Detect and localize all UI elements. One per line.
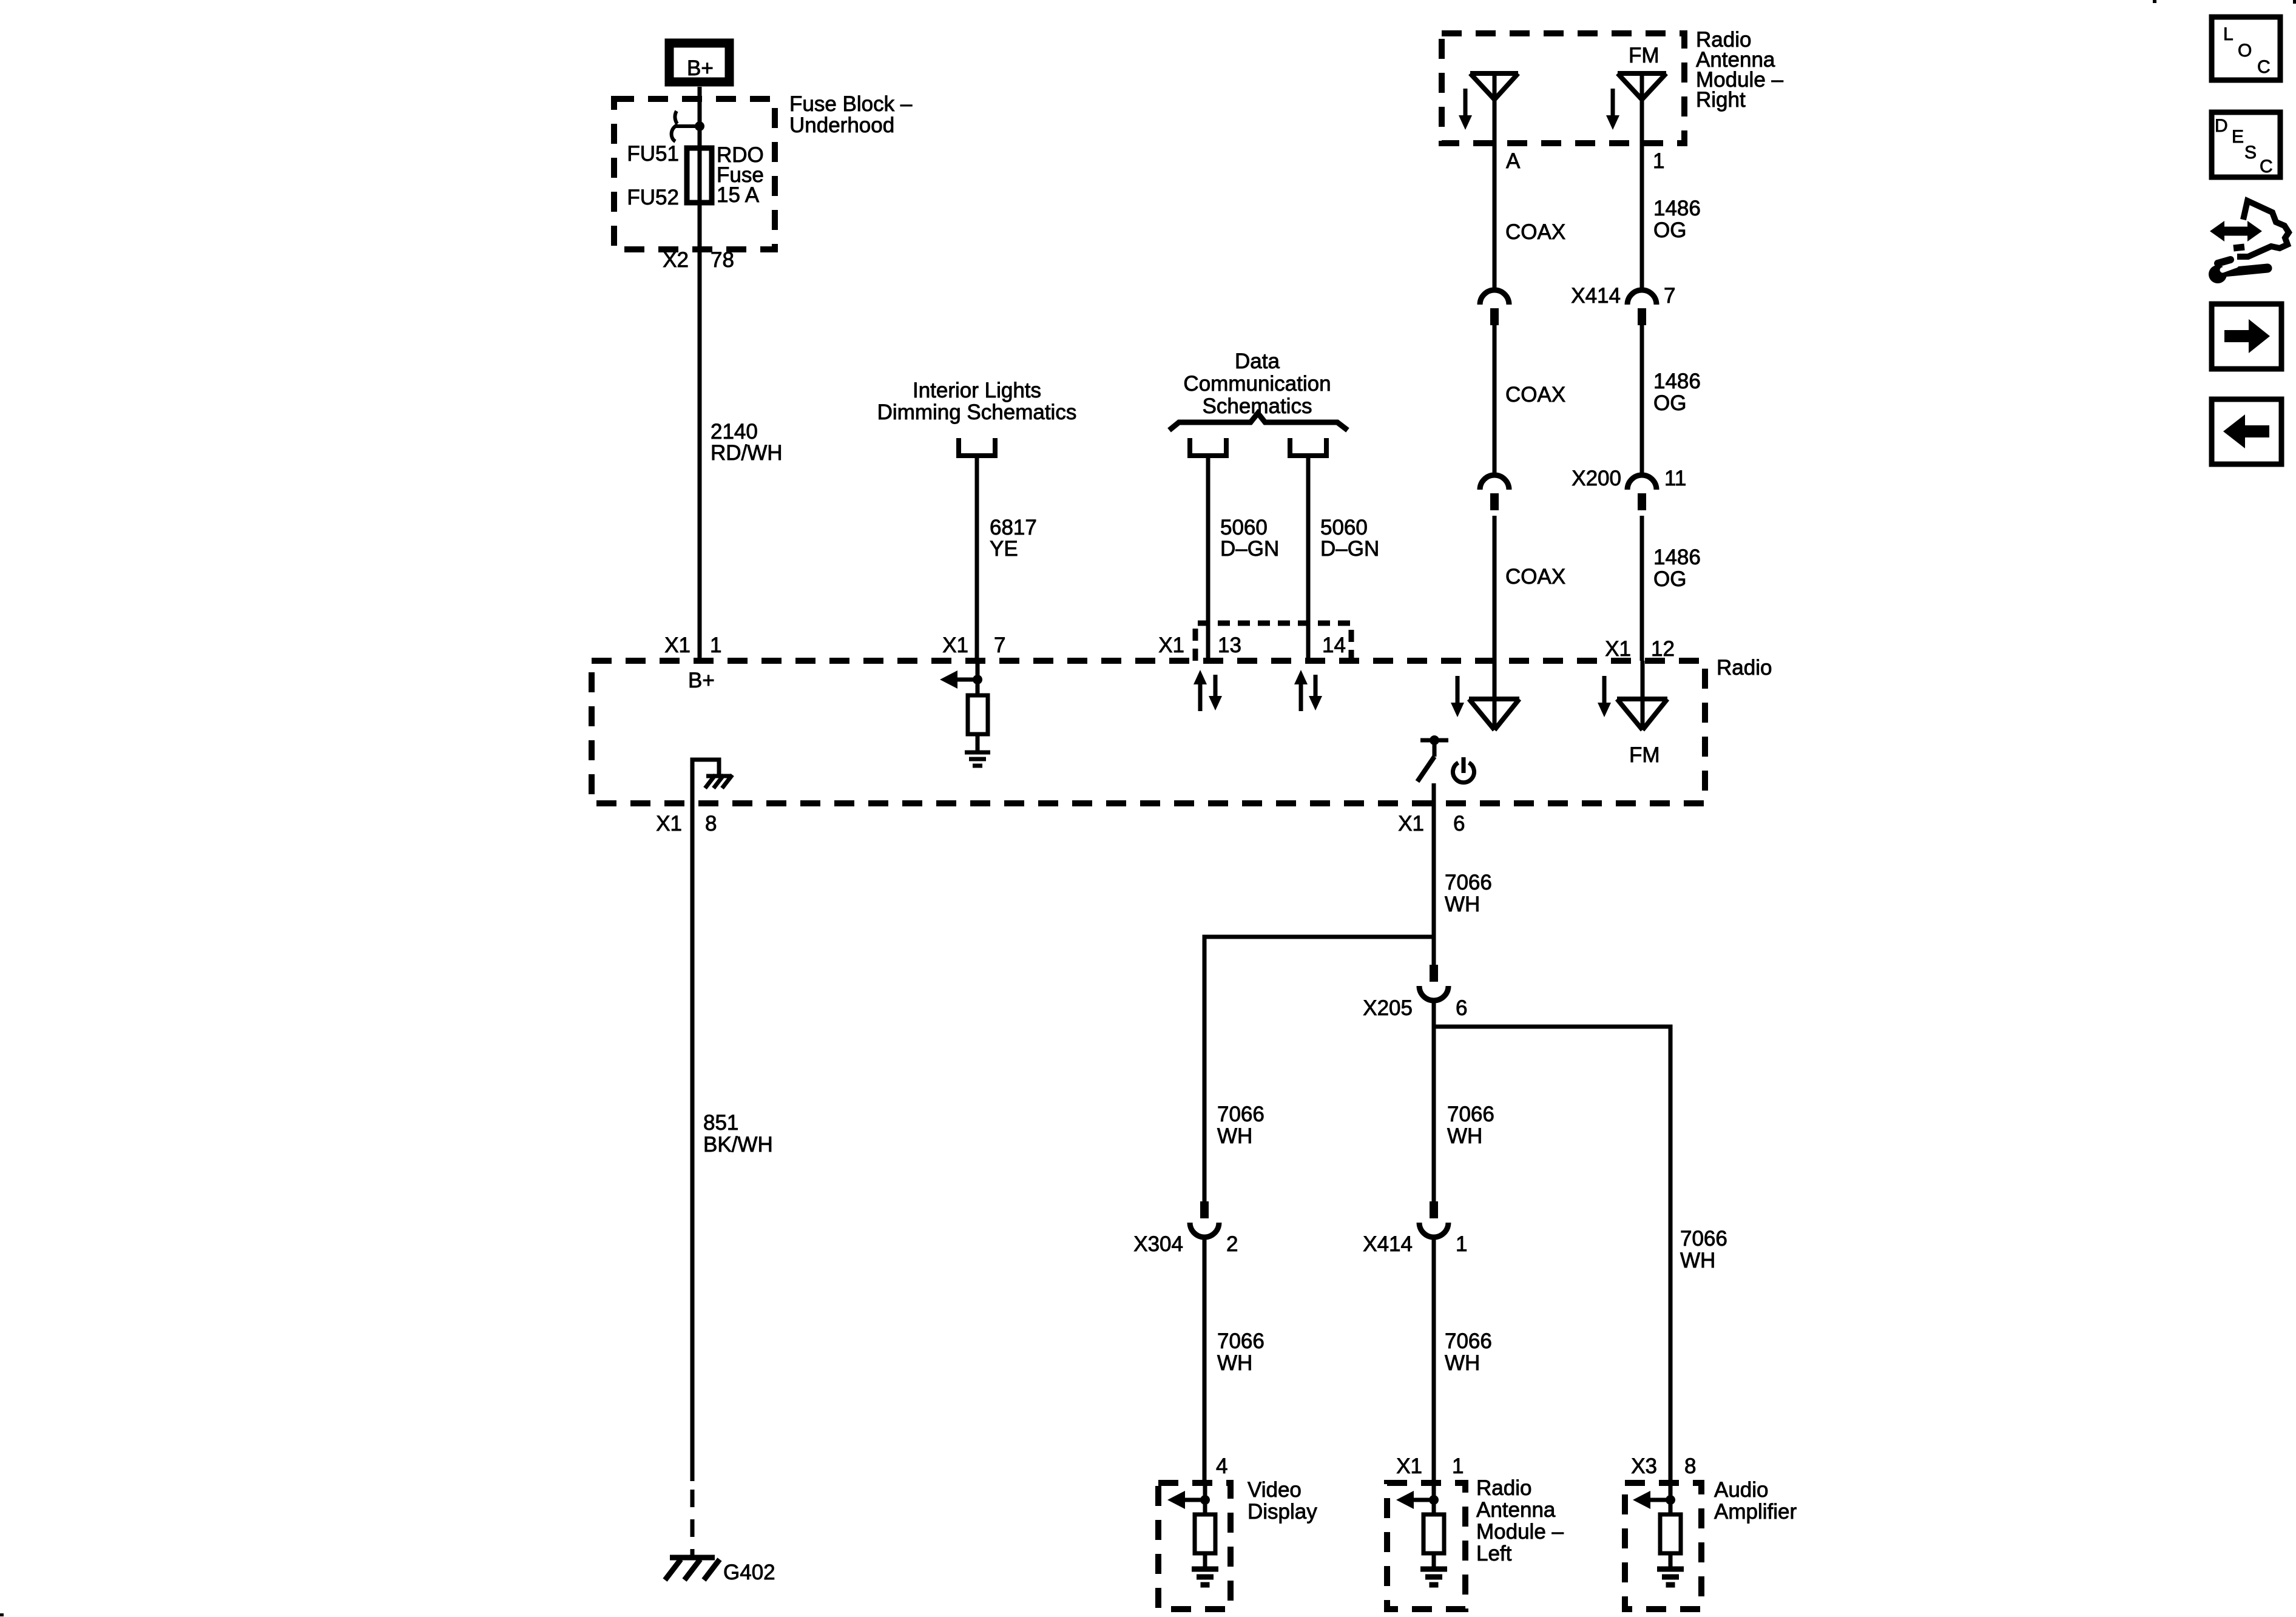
- svg-text:X414: X414: [1571, 284, 1621, 308]
- data arrows pin 14: [1294, 670, 1322, 711]
- svg-text:X1: X1: [1605, 637, 1631, 661]
- wire label 5060 D-GN right: [1320, 516, 1379, 561]
- svg-text:2: 2: [1226, 1232, 1238, 1256]
- power symbol B+ box: [669, 43, 729, 82]
- svg-text:S: S: [2244, 143, 2257, 163]
- svg-text:D–GN: D–GN: [1320, 537, 1379, 561]
- svg-text:COAX: COAX: [1505, 220, 1565, 244]
- sidebar vehicle wrench icon: [2209, 201, 2289, 283]
- svg-text:X1: X1: [1158, 633, 1184, 657]
- svg-text:WH: WH: [1447, 1124, 1482, 1148]
- svg-text:Underhood: Underhood: [789, 113, 894, 137]
- svg-text:13: 13: [1218, 633, 1241, 657]
- svg-text:BK/WH: BK/WH: [703, 1133, 773, 1156]
- radio antenna module right dashed box: [1442, 33, 1684, 143]
- wire label 2140 RD/WH: [711, 420, 783, 465]
- down arrow at radio antenna FM: [1598, 676, 1611, 717]
- svg-text:Dimming Schematics: Dimming Schematics: [877, 400, 1077, 424]
- svg-text:D–GN: D–GN: [1220, 537, 1279, 561]
- speck artifacts: [0, 1613, 4, 1616]
- svg-text:Antenna: Antenna: [1476, 1498, 1556, 1522]
- wire X304 to video display: [1203, 1236, 1207, 1483]
- svg-text:X2: X2: [663, 248, 689, 272]
- sidebar DESC button: [2212, 112, 2280, 177]
- svg-text:FM: FM: [1629, 44, 1660, 67]
- svg-text:1486: 1486: [1653, 370, 1701, 393]
- svg-text:Left: Left: [1476, 1542, 1512, 1565]
- svg-text:OG: OG: [1653, 391, 1686, 415]
- wire label 851 BK/WH: [703, 1111, 773, 1156]
- wire label 7066 WH middle branch: [1447, 1102, 1494, 1148]
- svg-text:X304: X304: [1133, 1232, 1183, 1256]
- antenna symbol A inside radio: [1469, 661, 1519, 730]
- svg-text:Module –: Module –: [1476, 1520, 1564, 1544]
- sidebar LOC button: [2212, 17, 2280, 80]
- pin label X2 78: [663, 248, 734, 272]
- ground jog and chassis symbol X1-8 inside radio: [692, 760, 732, 803]
- svg-text:X1: X1: [1398, 812, 1424, 836]
- wire label 6817 YE: [990, 516, 1037, 561]
- svg-text:WH: WH: [1217, 1124, 1252, 1148]
- svg-text:X205: X205: [1363, 996, 1413, 1020]
- wire X205 down to X414: [1432, 999, 1436, 1201]
- antenna symbol A in module: [1470, 73, 1518, 100]
- sidebar back arrow button: [2212, 399, 2281, 464]
- svg-text:Audio: Audio: [1714, 1478, 1769, 1502]
- svg-text:E: E: [2232, 127, 2244, 147]
- radio dashed box: [592, 661, 1705, 803]
- coax inline connector lower: [1480, 475, 1509, 510]
- svg-text:WH: WH: [1445, 1351, 1480, 1375]
- pin sub dashed box 13 14: [1195, 623, 1351, 661]
- harness bracket data line 13: [1187, 438, 1229, 456]
- svg-text:Data: Data: [1235, 349, 1280, 373]
- svg-text:6817: 6817: [990, 516, 1037, 539]
- svg-text:851: 851: [703, 1111, 738, 1135]
- svg-text:Display: Display: [1248, 1500, 1317, 1524]
- sidebar next arrow button: [2212, 304, 2281, 369]
- svg-text:7066: 7066: [1445, 1329, 1492, 1353]
- wire data line to pin 13: [1206, 456, 1210, 661]
- wire resistor to ground: [976, 734, 980, 752]
- svg-text:COAX: COAX: [1505, 383, 1565, 407]
- wire label 1486 OG 1: [1653, 197, 1701, 242]
- video display label: [1248, 1478, 1317, 1524]
- svg-text:B+: B+: [687, 56, 714, 80]
- power switch inside radio: [1417, 735, 1448, 781]
- wire coax antenna A to radio: [1493, 73, 1497, 661]
- wire label 7066 WH below X1-6: [1445, 871, 1492, 916]
- svg-text:WH: WH: [1680, 1249, 1715, 1272]
- wire label 7066 WH right branch: [1680, 1227, 1727, 1272]
- svg-text:7: 7: [994, 633, 1005, 657]
- wire branch left to X304: [1204, 937, 1434, 1201]
- svg-text:O: O: [2238, 41, 2252, 61]
- connector X414 pin 1: [1419, 1201, 1448, 1237]
- svg-text:FU52: FU52: [627, 186, 679, 209]
- connector X414 pin 7 label: [1571, 284, 1675, 308]
- coax inline connector upper: [1480, 290, 1509, 325]
- radio antenna module right label: [1696, 28, 1784, 112]
- pin label X1 13 14: [1158, 633, 1346, 657]
- wire label 7066 WH left branch: [1217, 1102, 1264, 1148]
- svg-text:YE: YE: [990, 537, 1018, 561]
- svg-text:6: 6: [1456, 996, 1467, 1020]
- audio amplifier dashed box: [1625, 1483, 1701, 1609]
- fuse block underhood dashed box: [614, 99, 775, 249]
- dimming input arrow and dot inside radio: [940, 670, 982, 689]
- svg-text:FU51: FU51: [627, 142, 679, 166]
- svg-text:C: C: [2260, 157, 2273, 177]
- svg-text:Radio: Radio: [1476, 1476, 1531, 1500]
- pin label X1 1 module left: [1396, 1454, 1464, 1478]
- svg-text:15 A: 15 A: [717, 183, 760, 207]
- svg-text:WH: WH: [1217, 1351, 1252, 1375]
- connector X414 pin 7: [1627, 290, 1656, 325]
- harness bracket data line 14: [1288, 438, 1329, 456]
- svg-text:Amplifier: Amplifier: [1714, 1500, 1797, 1524]
- svg-text:1: 1: [1653, 149, 1664, 173]
- svg-text:8: 8: [1684, 1454, 1696, 1478]
- wire label 7066 WH to antenna module left: [1445, 1329, 1492, 1375]
- wire dot to resistor: [976, 680, 980, 695]
- wire label 1486 OG 3: [1653, 545, 1701, 591]
- wire B+ to radio pin X1-1: [698, 87, 702, 661]
- svg-text:7066: 7066: [1445, 871, 1492, 894]
- svg-text:11: 11: [1664, 467, 1686, 490]
- fusible element hook: [672, 111, 696, 141]
- down arrow at radio antenna A: [1451, 676, 1464, 717]
- connector X205 pin 6: [1419, 965, 1448, 1001]
- svg-text:G402: G402: [723, 1561, 775, 1584]
- svg-text:Right: Right: [1696, 88, 1746, 112]
- svg-text:OG: OG: [1653, 218, 1686, 242]
- svg-text:Radio: Radio: [1717, 656, 1772, 680]
- svg-text:7066: 7066: [1217, 1102, 1264, 1126]
- svg-text:78: 78: [711, 248, 734, 272]
- fuse FU51/FU52 RDO 15A: [687, 148, 712, 203]
- connector X200 pin 11 label: [1572, 467, 1686, 490]
- connector X200 pin 11: [1627, 475, 1656, 510]
- wire data line to pin 14: [1306, 456, 1311, 661]
- wire X1-6 down to X205: [1432, 803, 1436, 965]
- svg-text:WH: WH: [1445, 893, 1480, 916]
- video display dashed box: [1158, 1483, 1231, 1609]
- horizontal brace: [1169, 413, 1348, 430]
- svg-text:RD/WH: RD/WH: [711, 441, 783, 465]
- svg-text:B+: B+: [688, 669, 715, 692]
- svg-text:A: A: [1506, 149, 1521, 173]
- svg-text:COAX: COAX: [1505, 565, 1565, 589]
- svg-text:5060: 5060: [1220, 516, 1268, 539]
- svg-text:FM: FM: [1629, 743, 1660, 767]
- connector X205 pin 6 label: [1363, 996, 1467, 1020]
- pin label X3 8 audio amplifier: [1631, 1454, 1696, 1478]
- svg-text:6: 6: [1453, 812, 1465, 836]
- svg-text:X1: X1: [664, 633, 690, 657]
- connector X414 pin 1 label: [1363, 1232, 1467, 1256]
- svg-text:Fuse Block –: Fuse Block –: [789, 92, 913, 116]
- fuse block label: [789, 92, 913, 137]
- connector X304 pin 2: [1190, 1201, 1219, 1237]
- wire 1486 OG antenna FM to radio pin X1-12: [1640, 73, 1644, 661]
- wire label 1486 OG 2: [1653, 370, 1701, 415]
- svg-text:7066: 7066: [1680, 1227, 1727, 1251]
- svg-text:X3: X3: [1631, 1454, 1657, 1478]
- resistor inside radio: [968, 695, 988, 734]
- svg-text:1: 1: [710, 633, 721, 657]
- svg-text:4: 4: [1216, 1454, 1227, 1478]
- svg-text:7066: 7066: [1217, 1329, 1264, 1353]
- wire interior lights to radio pin X1-7: [975, 456, 979, 661]
- svg-text:X414: X414: [1363, 1232, 1413, 1256]
- radio antenna module left dashed box: [1387, 1483, 1465, 1609]
- node junction dot on B+ feed: [695, 121, 704, 131]
- svg-text:X1: X1: [656, 812, 682, 836]
- pin label X1 6: [1398, 812, 1465, 836]
- svg-text:7066: 7066: [1447, 1102, 1494, 1126]
- down arrow at antenna FM: [1606, 89, 1619, 130]
- pin label X1 8: [656, 812, 717, 836]
- audio amplifier internals arrow resistor ground: [1633, 1483, 1684, 1585]
- svg-text:Video: Video: [1248, 1478, 1302, 1502]
- down arrow at antenna A: [1459, 89, 1472, 130]
- fuse value label RDO Fuse 15 A: [717, 143, 764, 207]
- svg-text:OG: OG: [1653, 567, 1686, 591]
- antenna symbol FM inside radio: [1617, 661, 1667, 730]
- wire X1-8 to G402: [690, 803, 695, 1556]
- wire label 5060 D-GN left: [1220, 516, 1279, 561]
- power on symbol: [1453, 757, 1474, 783]
- radio antenna module left internals arrow resistor ground: [1396, 1483, 1447, 1585]
- data communication schematics label: [1183, 349, 1331, 418]
- data arrows pin 13: [1194, 670, 1222, 711]
- antenna symbol FM in module: [1618, 73, 1666, 100]
- svg-text:5060: 5060: [1320, 516, 1368, 539]
- pin label X1 12: [1605, 637, 1675, 661]
- svg-text:1486: 1486: [1653, 197, 1701, 220]
- svg-text:8: 8: [705, 812, 717, 836]
- video display internals arrow resistor ground: [1167, 1483, 1218, 1585]
- svg-text:D: D: [2215, 116, 2228, 136]
- harness bracket interior lights: [956, 438, 998, 456]
- ground G402 chassis symbol: [665, 1558, 720, 1580]
- pin label X1 7: [942, 633, 1005, 657]
- svg-text:1: 1: [1452, 1454, 1464, 1478]
- audio amplifier label: [1714, 1478, 1797, 1524]
- ground inside radio: [965, 752, 990, 766]
- svg-text:X1: X1: [1396, 1454, 1422, 1478]
- svg-text:Communication: Communication: [1183, 372, 1331, 396]
- pin label X1 1: [664, 633, 721, 657]
- radio antenna module left label: [1476, 1476, 1564, 1565]
- switch bottom contact wire: [1432, 783, 1436, 803]
- svg-text:1: 1: [1456, 1232, 1467, 1256]
- svg-text:1486: 1486: [1653, 545, 1701, 569]
- wire pin X1-7 into radio: [976, 661, 980, 681]
- svg-text:C: C: [2257, 57, 2271, 77]
- svg-text:Interior Lights: Interior Lights: [913, 379, 1041, 402]
- wire X414 to radio antenna module left: [1432, 1236, 1436, 1483]
- svg-text:L: L: [2223, 24, 2234, 44]
- svg-text:2140: 2140: [711, 420, 758, 444]
- svg-text:12: 12: [1651, 637, 1675, 661]
- svg-text:7: 7: [1664, 284, 1675, 308]
- wire label 7066 WH to video display: [1217, 1329, 1264, 1375]
- svg-text:X1: X1: [942, 633, 968, 657]
- svg-text:14: 14: [1322, 633, 1346, 657]
- interior lights dimming schematics label: [877, 379, 1077, 424]
- wire branch right to audio amplifier: [1434, 1027, 1670, 1483]
- svg-text:X200: X200: [1572, 467, 1621, 490]
- connector X304 pin 2 label: [1133, 1232, 1238, 1256]
